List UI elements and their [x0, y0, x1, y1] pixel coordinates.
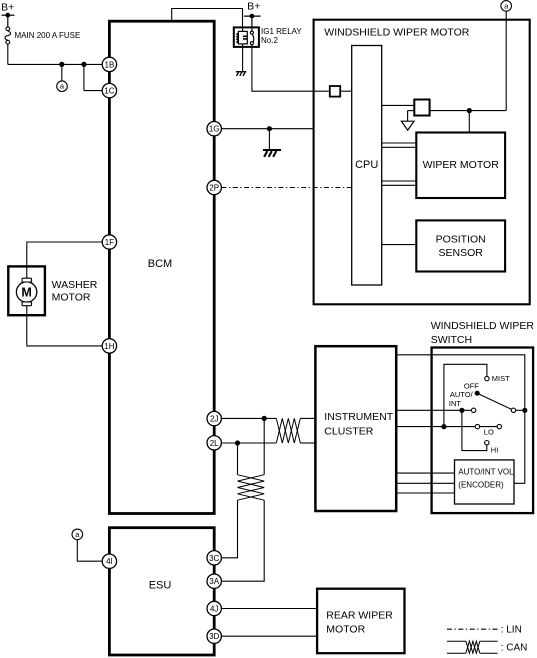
svg-text:1C: 1C	[104, 87, 114, 96]
B+ supply (top left)	[2, 15, 15, 27]
wire relay coil to ground	[242, 47, 244, 72]
rear wiper motor wires	[221, 609, 317, 637]
connector 2L	[207, 436, 221, 450]
junction	[467, 108, 472, 113]
connector 3D	[207, 629, 221, 643]
grid ref a (bottom left)	[72, 529, 83, 540]
connector 2P	[207, 180, 221, 194]
svg-text:AUTO/: AUTO/	[450, 390, 474, 399]
grid ref a (top left)	[57, 81, 68, 92]
relay switch	[250, 28, 253, 46]
connector 4J	[207, 601, 221, 615]
svg-text:2P: 2P	[209, 184, 219, 193]
svg-text:HI: HI	[491, 446, 499, 455]
connector square 2	[414, 100, 429, 116]
svg-text:MIST: MIST	[492, 374, 510, 383]
svg-text:CPU: CPU	[355, 159, 378, 171]
svg-text:: LIN: : LIN	[501, 625, 522, 636]
svg-text:MAIN 200 A FUSE: MAIN 200 A FUSE	[15, 31, 81, 40]
IG1 relay No.2	[234, 27, 259, 47]
connector 1B	[102, 57, 116, 71]
connector 1F	[102, 235, 116, 249]
svg-text:MOTOR: MOTOR	[52, 292, 91, 304]
svg-text:1B: 1B	[105, 60, 115, 69]
B+ supply (relay)	[244, 16, 261, 27]
ESU	[109, 528, 214, 655]
CAN twisted pair (vertical)	[238, 475, 265, 501]
ground (relay)	[236, 72, 246, 76]
switch arm	[477, 393, 511, 409]
connector 1C	[102, 83, 116, 97]
washer motor	[8, 266, 45, 315]
svg-text:M: M	[21, 285, 31, 299]
position sensor box	[416, 220, 505, 271]
svg-text:2L: 2L	[210, 439, 219, 448]
park position arrow	[408, 111, 415, 122]
svg-text:CLUSTER: CLUSTER	[324, 425, 373, 437]
junction	[59, 62, 64, 67]
svg-text:LO: LO	[484, 428, 494, 437]
legend CAN	[447, 641, 498, 653]
svg-text:WIPER MOTOR: WIPER MOTOR	[423, 159, 500, 171]
svg-text:: CAN: : CAN	[501, 643, 528, 654]
svg-text:B+: B+	[1, 2, 14, 14]
wire pair CPU to wiper motor	[382, 143, 417, 185]
wire fuse to 1B	[8, 44, 103, 64]
svg-text:BCM: BCM	[148, 258, 172, 270]
svg-text:1G: 1G	[209, 125, 220, 134]
windshield wiper switch box	[432, 348, 533, 514]
svg-text:(ENCODER): (ENCODER)	[458, 481, 504, 490]
svg-text:WINDSHIELD WIPER MOTOR: WINDSHIELD WIPER MOTOR	[324, 26, 469, 38]
svg-text:1F: 1F	[105, 238, 114, 247]
wire a to 4I	[77, 540, 102, 562]
svg-text:WASHER: WASHER	[52, 279, 98, 291]
encoder AUTO/INT VOL	[455, 460, 515, 504]
svg-text:4J: 4J	[210, 605, 218, 614]
junction	[522, 408, 527, 413]
svg-text:No.2: No.2	[261, 36, 278, 45]
switch feed wire	[396, 355, 525, 484]
encoder wires	[396, 473, 454, 493]
svg-text:INT: INT	[449, 399, 462, 408]
wire to grid ref a	[61, 64, 63, 81]
svg-text:B+: B+	[247, 0, 260, 12]
HI branch	[462, 410, 487, 450]
LIN wire 2P to CPU	[221, 187, 351, 189]
svg-text:3A: 3A	[209, 577, 219, 586]
AUTO/INT row	[396, 409, 471, 411]
junction	[81, 62, 86, 67]
relay coil	[237, 28, 248, 46]
connector 3C	[207, 551, 221, 565]
LO row	[396, 426, 475, 428]
OFF contact	[475, 391, 480, 396]
svg-text:2J: 2J	[210, 415, 218, 424]
svg-text:INSTRUMENT: INSTRUMENT	[324, 411, 393, 423]
connector 1H	[102, 339, 116, 353]
svg-text:IG1 RELAY: IG1 RELAY	[261, 27, 302, 36]
svg-text:3D: 3D	[209, 632, 219, 641]
washer motor wires	[27, 242, 103, 346]
wire square2 to node	[430, 110, 507, 112]
CAN drop wires	[238, 418, 265, 474]
wires to ESU 3C 3A	[221, 500, 264, 581]
connector square (relay wire)	[330, 86, 340, 97]
connector 4I	[102, 554, 116, 568]
svg-text:1H: 1H	[104, 342, 114, 351]
junction	[267, 126, 272, 131]
svg-text:3C: 3C	[209, 554, 219, 563]
ground (1G)	[263, 150, 281, 157]
rear wiper motor	[317, 589, 404, 654]
wire CPU to position sensor	[382, 244, 417, 246]
MIST branch	[444, 364, 487, 426]
fuse MAIN 200 A FUSE	[5, 27, 11, 44]
CAN twisted pair (horizontal)	[276, 418, 300, 443]
svg-text:MOTOR: MOTOR	[326, 623, 365, 635]
MIST contact	[485, 376, 489, 380]
CAN wires 2J 2L	[222, 418, 316, 443]
svg-text:REAR WIPER: REAR WIPER	[326, 610, 393, 622]
junction	[235, 440, 240, 445]
wire 1G to wiper motor case	[221, 128, 313, 130]
wire node up to grid ref a	[505, 11, 507, 110]
grid ref a (top right)	[501, 1, 512, 12]
connector 3A	[207, 574, 221, 588]
connector 1G	[207, 122, 221, 136]
svg-text:POSITION: POSITION	[436, 234, 486, 246]
wire to ground	[268, 129, 270, 150]
svg-text:SENSOR: SENSOR	[439, 247, 484, 259]
svg-text:ESU: ESU	[149, 579, 172, 591]
wire BCM top to relay coil	[172, 9, 243, 28]
wiper motor box	[416, 133, 505, 199]
wire node down to wiper motor	[468, 111, 470, 133]
CPU	[352, 46, 382, 286]
svg-text:SWITCH: SWITCH	[431, 334, 472, 346]
windshield wiper motor box	[314, 20, 530, 305]
junction	[262, 416, 267, 421]
legend LIN	[447, 628, 498, 630]
junction	[441, 424, 446, 429]
instrument cluster	[315, 346, 396, 511]
BCM	[109, 21, 214, 513]
svg-text:WINDSHIELD WIPER: WINDSHIELD WIPER	[431, 320, 535, 332]
wire CPU to connector square 2	[382, 104, 415, 106]
wire relay switch to CPU	[252, 47, 330, 91]
svg-text:4I: 4I	[106, 557, 113, 566]
svg-text:AUTO/INT VOL: AUTO/INT VOL	[458, 468, 514, 477]
connector 2J	[207, 411, 221, 425]
wire to 1C	[84, 64, 103, 90]
